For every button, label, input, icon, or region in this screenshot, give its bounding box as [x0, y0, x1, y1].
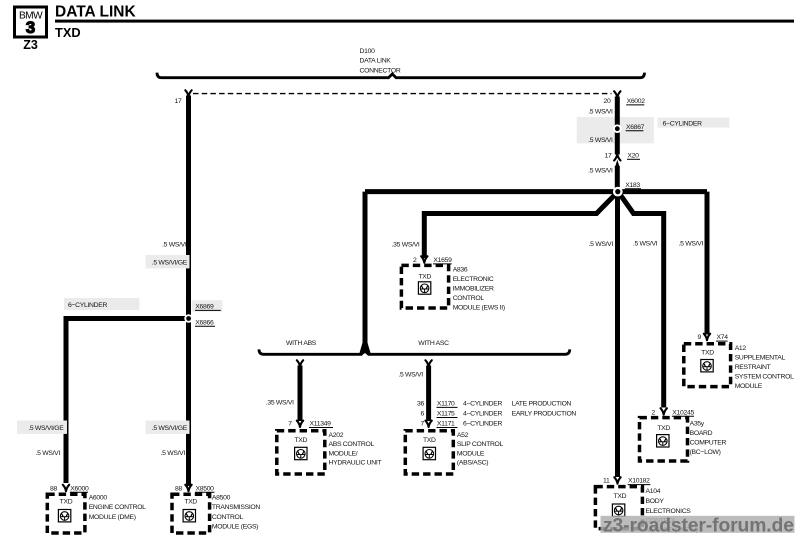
- svg-text:X6000: X6000: [70, 485, 89, 492]
- module A52 box: [405, 431, 453, 474]
- connector X1171 row: [437, 421, 503, 428]
- label 6-CYLINDER highlighted (right): [658, 118, 730, 128]
- wire to ABS/ASC bracket: [363, 192, 368, 344]
- claw X74: [704, 334, 710, 340]
- claw X1659: [421, 256, 427, 262]
- D100 internal dashed link: [193, 93, 612, 95]
- svg-text:BODY: BODY: [646, 498, 665, 505]
- icon A52: [423, 447, 435, 459]
- junction X6866: [184, 314, 215, 326]
- svg-text:ENGINE CONTROL: ENGINE CONTROL: [89, 504, 146, 511]
- label A35y BOARD COMPUTER (BC-LOW): [690, 421, 727, 456]
- wire left trunk: [186, 96, 191, 487]
- svg-text:X20: X20: [627, 152, 639, 159]
- svg-text:Z3: Z3: [23, 38, 38, 52]
- svg-text:X1659: X1659: [433, 257, 452, 264]
- svg-text:.5 WS/VI: .5 WS/VI: [588, 168, 613, 175]
- svg-text:MODULE (EWS II): MODULE (EWS II): [453, 305, 505, 312]
- icon A202: [295, 447, 307, 459]
- module A836 box: [401, 265, 448, 308]
- connector X6869: [192, 300, 223, 311]
- claw X6000: [63, 485, 69, 491]
- svg-text:.5 WS/VI/GE: .5 WS/VI/GE: [152, 425, 188, 432]
- svg-text:.5 WS/VI: .5 WS/VI: [633, 241, 658, 248]
- svg-text:TXD: TXD: [60, 499, 73, 506]
- svg-text:SYSTEM CONTROL: SYSTEM CONTROL: [735, 374, 794, 381]
- icon A35y: [657, 435, 669, 447]
- claw X11349: [297, 421, 303, 427]
- svg-text:ELECTRONIC: ELECTRONIC: [453, 276, 494, 283]
- svg-text:A12: A12: [735, 345, 747, 352]
- icon A12: [701, 360, 713, 372]
- wire to A836: [424, 192, 618, 258]
- module A12 box: [684, 344, 731, 387]
- claw top (A202 wire): [297, 360, 303, 366]
- connector X74: [716, 334, 728, 341]
- svg-text:X6866: X6866: [195, 319, 214, 326]
- svg-text:2: 2: [413, 257, 417, 264]
- svg-text:.5 WS/VI: .5 WS/VI: [161, 450, 186, 457]
- svg-text:9: 9: [698, 334, 702, 341]
- module A104 box: [595, 487, 642, 529]
- svg-text:ABS CONTROL: ABS CONTROL: [329, 441, 375, 448]
- module A202 box: [277, 431, 325, 474]
- svg-text:MODULE: MODULE: [457, 450, 485, 457]
- connector X11349: [309, 421, 333, 428]
- svg-text:LATE PRODUCTION: LATE PRODUCTION: [512, 401, 572, 408]
- svg-text:TXD: TXD: [423, 437, 436, 444]
- svg-text:X6867: X6867: [626, 124, 645, 131]
- svg-text:.5 WS/VI: .5 WS/VI: [36, 450, 61, 457]
- svg-text:.5 WS/VI/GE: .5 WS/VI/GE: [28, 425, 64, 432]
- svg-text:X1170: X1170: [437, 401, 455, 408]
- svg-text:.5 WS/VI: .5 WS/VI: [589, 241, 614, 248]
- svg-text:11: 11: [603, 478, 610, 485]
- svg-text:6−CYLINDER: 6−CYLINDER: [663, 121, 703, 128]
- connector X10182: [628, 478, 651, 485]
- svg-text:4−CYLINDER: 4−CYLINDER: [463, 411, 503, 418]
- connector X20 claw and point: [614, 152, 640, 167]
- svg-text:A35y: A35y: [690, 421, 705, 428]
- connector X1170 row: [437, 401, 572, 408]
- svg-text:2: 2: [652, 409, 656, 416]
- connector X1175 row: [437, 411, 577, 418]
- connector X8500: [195, 485, 215, 492]
- label .5 WS/VI/GE highlighted: [146, 255, 190, 268]
- svg-text:ELECTRONICS: ELECTRONICS: [646, 508, 692, 515]
- bracket WITH ABS / WITH ASC: [259, 349, 570, 354]
- svg-text:TXD: TXD: [55, 25, 81, 40]
- svg-text:A6000: A6000: [89, 495, 108, 502]
- icon A6000: [58, 510, 70, 522]
- node X183: [613, 187, 623, 197]
- icon A104: [612, 504, 624, 516]
- svg-text:88: 88: [175, 485, 182, 492]
- svg-text:COMPUTER: COMPUTER: [690, 439, 727, 446]
- connector X10245: [672, 409, 695, 416]
- svg-text:X6869: X6869: [195, 303, 214, 310]
- svg-text:.5 WS/VI: .5 WS/VI: [162, 242, 187, 249]
- connector X6000: [70, 485, 89, 492]
- junction X6867: [613, 124, 645, 133]
- module A35y box: [640, 418, 688, 461]
- svg-text:MODULE: MODULE: [735, 383, 763, 390]
- wire X183 horizontal: [365, 189, 707, 194]
- svg-text:X6002: X6002: [627, 98, 646, 105]
- wire to A104: [615, 192, 620, 477]
- title divider: [55, 20, 794, 23]
- label X183: [625, 182, 641, 189]
- svg-text:17: 17: [605, 152, 612, 159]
- svg-text:TXD: TXD: [614, 493, 627, 500]
- claw X8500: [185, 485, 191, 491]
- svg-text:17: 17: [175, 98, 182, 105]
- svg-text:.5 WS/VI: .5 WS/VI: [588, 137, 613, 144]
- svg-text:DATA LINK: DATA LINK: [55, 4, 136, 21]
- connector D100 bracket: [157, 73, 645, 78]
- svg-text:.35 WS/VI: .35 WS/VI: [266, 399, 294, 406]
- wire branch to A6000: [66, 319, 189, 484]
- claw top (A52 wire): [425, 360, 431, 366]
- svg-text:MODULE/: MODULE/: [329, 450, 358, 457]
- connector claw pin 17: [185, 90, 191, 96]
- label 6-CYLINDER highlighted (left): [64, 298, 139, 310]
- svg-text:A104: A104: [646, 488, 661, 495]
- module A6000 box: [47, 494, 85, 533]
- svg-text:CONNECTOR: CONNECTOR: [360, 68, 401, 75]
- svg-text:.35 WS/VI: .35 WS/VI: [392, 241, 420, 248]
- svg-text:X1171: X1171: [437, 421, 455, 428]
- svg-text:36: 36: [417, 401, 424, 408]
- bell into bracket: [359, 342, 370, 353]
- svg-text:D100: D100: [360, 48, 376, 55]
- svg-text:(ABS/ASC): (ABS/ASC): [457, 460, 488, 467]
- svg-text:RESTRAINT: RESTRAINT: [735, 364, 771, 371]
- svg-text:88: 88: [50, 485, 57, 492]
- svg-text:.5 WS/VI/GE: .5 WS/VI/GE: [152, 260, 188, 267]
- svg-text:WITH ASC: WITH ASC: [418, 340, 449, 347]
- module A8500 box: [172, 494, 210, 533]
- svg-text:A8500: A8500: [212, 495, 231, 502]
- svg-text:TXD: TXD: [701, 349, 714, 356]
- label D100 DATA LINK CONNECTOR: [360, 48, 401, 75]
- svg-text:(BC−LOW): (BC−LOW): [690, 449, 721, 456]
- svg-text:WITH ABS: WITH ABS: [286, 340, 317, 347]
- svg-text:3: 3: [26, 18, 35, 37]
- claw X10182: [614, 477, 620, 483]
- svg-text:6: 6: [421, 411, 425, 418]
- svg-text:SUPPLEMENTAL: SUPPLEMENTAL: [735, 355, 786, 362]
- wire right trunk upper: [615, 97, 620, 155]
- svg-text:IMMOBILIZER: IMMOBILIZER: [453, 286, 494, 293]
- svg-text:HYDRAULIC UNIT: HYDRAULIC UNIT: [329, 460, 382, 467]
- svg-text:A836: A836: [453, 266, 468, 273]
- wire to A12: [705, 192, 710, 335]
- svg-text:DATA LINK: DATA LINK: [360, 58, 392, 65]
- icon A836: [418, 282, 430, 294]
- label A8500 TRANSMISSION CONTROL MODULE (EGS): [212, 495, 261, 531]
- label A836 ELECTRONIC IMMOBILIZER CONTROL MODULE (EWS II): [453, 266, 505, 311]
- highlight box X6867: [577, 117, 654, 143]
- icon A8500: [183, 510, 195, 522]
- claw X1171 (A52 pin): [425, 421, 431, 427]
- svg-text:.5 WS/VI: .5 WS/VI: [398, 372, 423, 379]
- label A12 SUPPLEMENTAL RESTRAINT SYSTEM CONTROL MODULE: [735, 345, 794, 390]
- svg-text:TXD: TXD: [294, 437, 307, 444]
- wire to A202: [298, 366, 303, 422]
- svg-text:TXD: TXD: [418, 274, 431, 281]
- watermark band: [601, 516, 795, 533]
- svg-text:X10182: X10182: [628, 478, 650, 485]
- claw pin 20: [614, 91, 620, 97]
- svg-text:CONTROL: CONTROL: [453, 295, 485, 302]
- svg-text:.5 WS/VI: .5 WS/VI: [588, 109, 613, 116]
- svg-text:TXD: TXD: [657, 425, 670, 432]
- connector X6002: [626, 98, 645, 105]
- svg-text:20: 20: [604, 98, 611, 105]
- svg-text:X8500: X8500: [196, 485, 215, 492]
- label .5 WS/VI/GE highlighted (A8500 wire): [146, 421, 190, 434]
- connector X1659: [433, 257, 452, 264]
- label A52 SLIP CONTROL MODULE (ABS/ASC): [457, 432, 504, 467]
- label A104 BODY ELECTRONICS CONTROL MODULE (ZKE IV): [646, 488, 699, 533]
- svg-text:A202: A202: [329, 432, 344, 439]
- svg-text:6−CYLINDER: 6−CYLINDER: [463, 421, 503, 428]
- svg-text:X1175: X1175: [437, 411, 455, 418]
- BMW logo box: [15, 7, 47, 37]
- wire to A35y: [618, 192, 664, 408]
- svg-text:SLIP CONTROL: SLIP CONTROL: [457, 441, 504, 448]
- svg-text:X10245: X10245: [672, 409, 694, 416]
- svg-text:z3-roadster-forum.de: z3-roadster-forum.de: [603, 515, 794, 536]
- label A6000 ENGINE CONTROL MODULE (DME): [89, 495, 146, 521]
- label .5 WS/VI/GE highlighted (A6000 wire): [17, 421, 67, 434]
- svg-text:BOARD: BOARD: [690, 430, 713, 437]
- svg-text:MODULE (DME): MODULE (DME): [89, 514, 136, 521]
- svg-text:7: 7: [288, 421, 292, 428]
- claw X10245: [661, 408, 667, 414]
- svg-text:EARLY PRODUCTION: EARLY PRODUCTION: [512, 411, 577, 418]
- svg-text:4−CYLINDER: 4−CYLINDER: [463, 401, 503, 408]
- svg-text:CONTROL: CONTROL: [212, 514, 244, 521]
- svg-text:.5 WS/VI: .5 WS/VI: [679, 241, 704, 248]
- svg-text:TXD: TXD: [184, 499, 197, 506]
- svg-text:MODULE (EGS): MODULE (EGS): [212, 523, 258, 530]
- svg-text:TRANSMISSION: TRANSMISSION: [212, 504, 261, 511]
- svg-text:7: 7: [421, 421, 425, 428]
- svg-text:X183: X183: [625, 182, 640, 189]
- svg-text:A52: A52: [457, 432, 469, 439]
- label A202 ABS CONTROL MODULE/ HYDRAULIC UNIT: [329, 432, 382, 467]
- wire right trunk lower: [615, 166, 620, 189]
- svg-text:X74: X74: [717, 334, 729, 341]
- svg-text:6−CYLINDER: 6−CYLINDER: [68, 302, 108, 309]
- wire to A52: [426, 366, 431, 422]
- svg-text:X11349: X11349: [310, 421, 332, 428]
